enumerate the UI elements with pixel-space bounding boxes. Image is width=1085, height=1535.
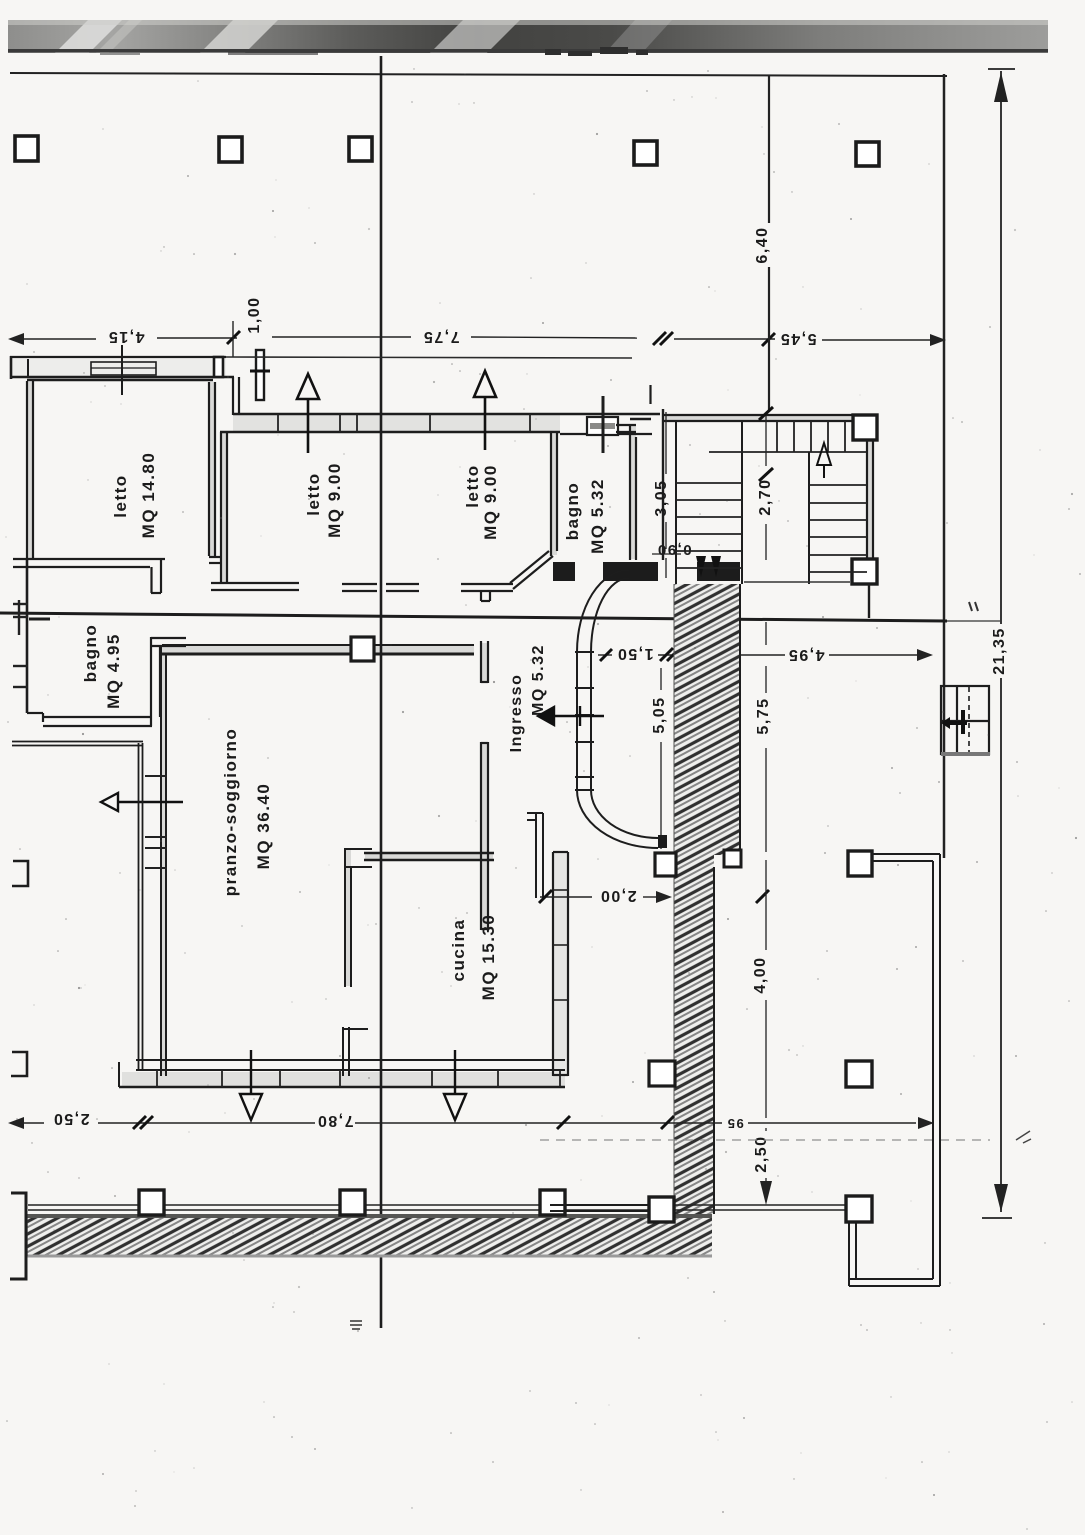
stair right flight steps bbox=[809, 485, 867, 572]
bottom pillars bbox=[139, 1190, 674, 1222]
pillar at hatch mid bbox=[655, 853, 676, 876]
svg-text:MQ 36.40: MQ 36.40 bbox=[254, 783, 273, 870]
svg-text:MQ 5.32: MQ 5.32 bbox=[530, 644, 547, 716]
svg-text:4,95: 4,95 bbox=[787, 646, 824, 663]
top pillars row bbox=[15, 136, 879, 166]
dim arrows/ticks y=338 bbox=[8, 333, 24, 345]
svg-text:7,75: 7,75 bbox=[422, 328, 459, 345]
svg-text:4,00: 4,00 bbox=[752, 956, 769, 993]
room3 right wall bbox=[551, 433, 557, 556]
room2 bottom wall bbox=[211, 583, 377, 591]
stair landing line bbox=[709, 451, 866, 453]
stair left wall bbox=[662, 409, 664, 560]
svg-text:1,50: 1,50 bbox=[616, 645, 653, 662]
pillar right bottom bbox=[846, 1196, 872, 1222]
svg-text:2,50: 2,50 bbox=[753, 1135, 770, 1172]
living left door arrow bbox=[101, 793, 183, 811]
hatch terrace vertical band bbox=[674, 584, 740, 855]
scanner band top bbox=[8, 20, 1048, 53]
left wall window ticks bbox=[145, 776, 167, 868]
svg-text:MQ 15.30: MQ 15.30 bbox=[479, 914, 498, 1001]
corridor top thin line bbox=[226, 357, 632, 358]
door arrow up room3 bbox=[474, 371, 496, 450]
svg-text:letto: letto bbox=[111, 474, 130, 517]
bagno2 left wall bbox=[26, 560, 29, 713]
svg-text:5,75: 5,75 bbox=[755, 697, 772, 734]
stair pillar bottom bbox=[852, 559, 877, 584]
room3 bottom walls bbox=[386, 584, 513, 601]
top boundary line bbox=[10, 73, 947, 76]
svg-text:cucina: cucina bbox=[449, 919, 468, 982]
quote mark near 21,35 bbox=[969, 602, 978, 611]
stair top flight steps bbox=[777, 421, 845, 452]
letto1 left wall bbox=[27, 381, 33, 560]
stair left flight steps bbox=[676, 483, 742, 568]
faint dashed line bbox=[540, 1139, 990, 1141]
tall left bracket at terrace bbox=[10, 1193, 26, 1279]
balcony door arrows down bbox=[240, 1050, 466, 1120]
dim line 1,50 / 4,95 y=655 bbox=[598, 654, 917, 656]
hall bottom wall band with doors bbox=[553, 562, 740, 581]
right boundary wall bbox=[943, 74, 946, 858]
ingresso left wall bbox=[481, 641, 488, 930]
hatch terrace bottom band bbox=[27, 1214, 712, 1256]
pillar right top bbox=[848, 851, 872, 876]
curved wall outer arc bottom bbox=[577, 790, 658, 848]
living bottom wall bbox=[119, 1060, 565, 1087]
svg-text:1,00: 1,00 bbox=[246, 296, 263, 333]
svg-text:4,15: 4,15 bbox=[107, 328, 144, 345]
dim vertical x=666 segments bbox=[652, 412, 681, 578]
dim vertical x=769 (6,40) bbox=[768, 76, 770, 412]
letto1 top wall bbox=[27, 379, 213, 381]
stair pillar top bbox=[853, 415, 877, 440]
pier between corridor windows bbox=[256, 350, 264, 400]
section end mark bbox=[350, 1321, 362, 1329]
pillar hatch lower bbox=[649, 1061, 675, 1086]
svg-text:bagno: bagno bbox=[563, 482, 582, 541]
0,90 door arrows bbox=[696, 556, 706, 577]
bedroom band walls bbox=[233, 413, 660, 415]
svg-text:2,00: 2,00 bbox=[599, 887, 636, 904]
svg-text:MQ 9.00: MQ 9.00 bbox=[481, 464, 500, 540]
wall piece left of bottom-right pillar bbox=[550, 1205, 649, 1211]
svg-text:MQ 5.32: MQ 5.32 bbox=[588, 478, 607, 554]
section line vertical bbox=[380, 56, 383, 1328]
kitchen hook wall bbox=[527, 813, 543, 898]
svg-text:letto: letto bbox=[463, 464, 482, 507]
svg-text:5,45: 5,45 bbox=[779, 330, 816, 347]
bagno2 walls bbox=[43, 637, 186, 726]
pillar right mid bbox=[846, 1061, 872, 1087]
service stair right bbox=[941, 686, 989, 754]
bottom dim line y=1123 bbox=[24, 1122, 916, 1124]
room3 chamfer wall bbox=[510, 551, 553, 589]
svg-text:pranzo-soggiorno: pranzo-soggiorno bbox=[221, 728, 240, 896]
small tick marks lower right bbox=[1016, 1131, 1031, 1143]
left edge ticks bagno bbox=[13, 600, 28, 687]
corner step wall to corridor bbox=[233, 377, 239, 415]
terrace top double line bbox=[28, 1204, 846, 1206]
svg-text:3,05: 3,05 bbox=[653, 479, 670, 516]
curved wall ingresso outer arc top bbox=[577, 570, 629, 652]
living room top wall bbox=[162, 645, 474, 654]
door arrow up room2 bbox=[297, 374, 319, 453]
bagno1 top walls bbox=[587, 417, 618, 435]
curved wall inner arc top bbox=[591, 578, 629, 652]
svg-text:Ingresso: Ingresso bbox=[508, 674, 525, 753]
stair direction arrow bbox=[817, 443, 831, 478]
dim vertical x=766 upper segments bbox=[765, 414, 767, 560]
svg-text:6,40: 6,40 bbox=[754, 226, 771, 263]
living room left wall bbox=[161, 645, 166, 1076]
pier end of parapet bbox=[214, 357, 223, 377]
svg-text:95: 95 bbox=[726, 1116, 743, 1131]
curved wall rungs bbox=[575, 652, 594, 790]
balcony ledge line left bbox=[12, 742, 143, 1071]
svg-text:0,90: 0,90 bbox=[656, 541, 691, 558]
stair right wall bbox=[867, 440, 873, 559]
cucina right wall bbox=[553, 852, 568, 1076]
svg-text:2,70: 2,70 bbox=[757, 478, 774, 515]
window ticks bedroom band bbox=[278, 414, 530, 432]
stair left flight rails bbox=[675, 421, 677, 584]
main section horizontal line bbox=[0, 613, 947, 621]
letto1 right wall bbox=[209, 382, 222, 563]
svg-text:2,50: 2,50 bbox=[52, 1110, 89, 1127]
bagno1 right wall bbox=[616, 425, 636, 560]
pillar on living wall bbox=[351, 637, 374, 661]
curved wall inner arc bottom bbox=[591, 790, 658, 838]
svg-text:letto: letto bbox=[304, 472, 323, 515]
ingresso door arrow bbox=[538, 706, 604, 726]
svg-text:MQ 4.95: MQ 4.95 bbox=[104, 633, 123, 709]
kitchen divider wall bbox=[342, 849, 372, 1076]
left margin brackets bbox=[11, 861, 28, 1076]
curved wall ladder verticals bbox=[576, 652, 578, 790]
svg-text:MQ 14.80: MQ 14.80 bbox=[139, 452, 158, 539]
room2 left wall bbox=[221, 432, 227, 584]
letto1 bottom wall bbox=[13, 559, 165, 593]
band debris marks bbox=[100, 47, 648, 56]
wall gray fills bbox=[10, 359, 873, 1086]
door jamb pole above bagno bbox=[602, 396, 605, 453]
svg-text:MQ 9.00: MQ 9.00 bbox=[325, 462, 344, 538]
svg-text:bagno: bagno bbox=[81, 624, 100, 683]
stair right flight rail bbox=[808, 452, 810, 584]
svg-text:5,05: 5,05 bbox=[651, 696, 668, 733]
svg-text:7,80: 7,80 bbox=[316, 1112, 353, 1129]
svg-text:21,35: 21,35 bbox=[991, 627, 1008, 675]
kitchen top wall bbox=[364, 853, 494, 860]
stairwell top wall bbox=[664, 415, 853, 421]
dim 2,00 line bbox=[540, 896, 656, 898]
right dimension 21,35 vertical bbox=[982, 69, 1015, 1218]
parapet top-left bbox=[10, 345, 234, 395]
dim line y=338 bbox=[24, 337, 930, 340]
